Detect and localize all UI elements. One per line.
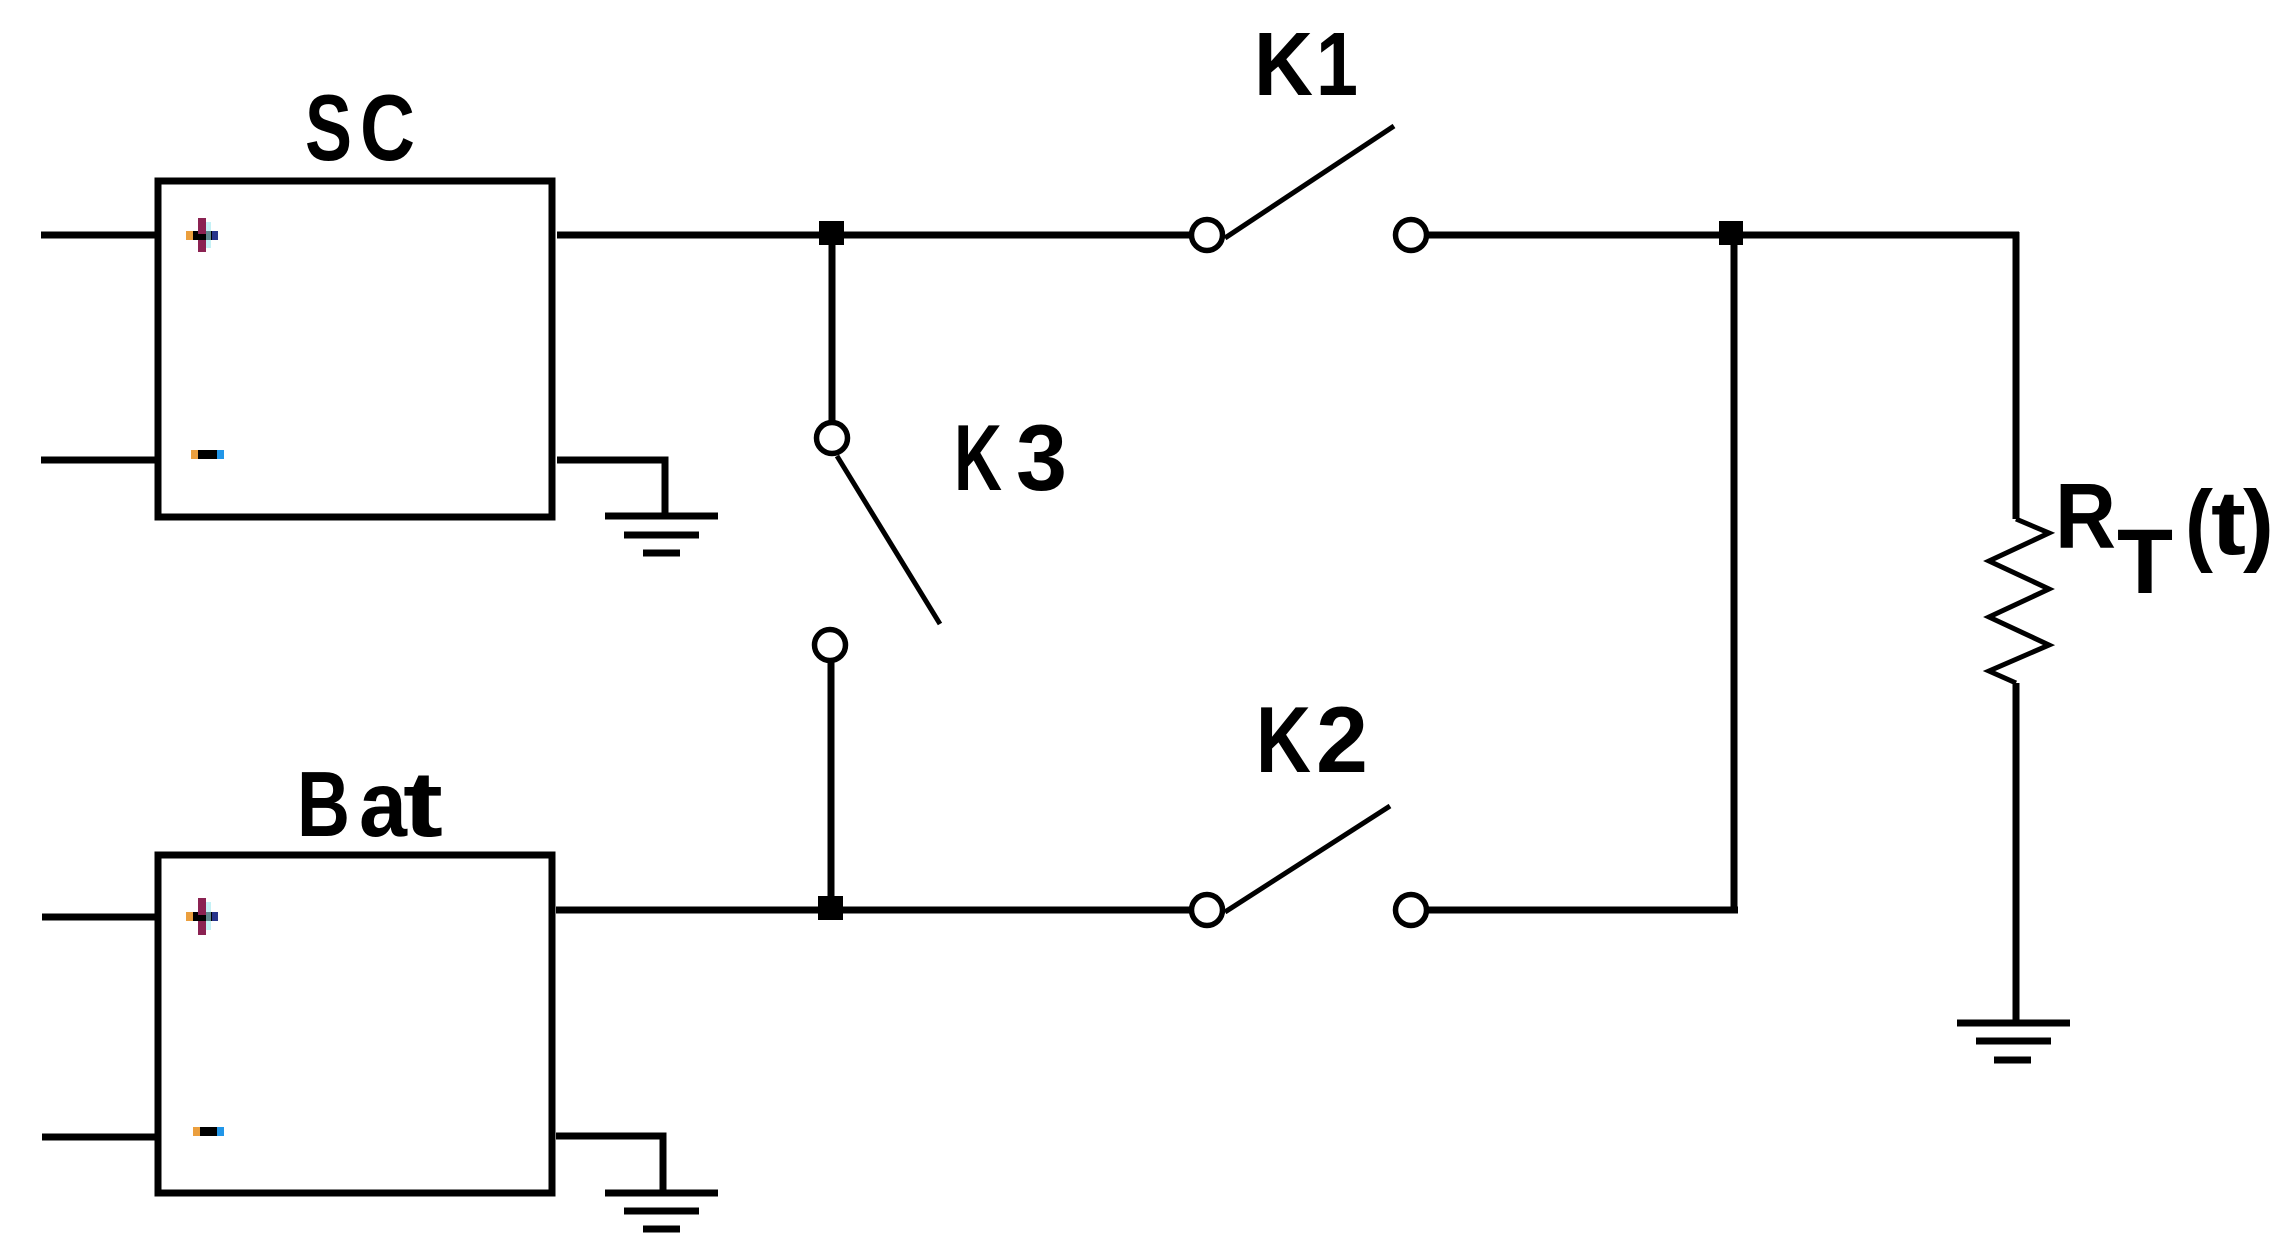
wire K2 to right riser [1427,907,1738,914]
ground under resistor [1957,1023,2070,1060]
label K3 [954,405,1067,510]
svg-text:t: t [2211,473,2246,574]
svg-text:S: S [305,75,352,180]
plus terminal label of Bat [186,898,218,935]
battery block Bat [158,855,552,1193]
minus terminal label of Bat [193,1127,224,1136]
wire Bat plus left stub [42,914,155,921]
wire SC minus left stub [41,457,157,464]
wire Bat minus left stub [42,1134,155,1141]
svg-text:B: B [297,752,350,856]
label SC [305,75,415,180]
label K1 [1254,15,1358,115]
supercapacitor block SC [158,181,552,517]
svg-text:C: C [360,75,415,180]
wire Bat plus output to K2 [556,907,1191,914]
wire K3 lower to Bat rail [828,662,835,910]
ground under Bat [605,1193,718,1229]
label R T (t) [2055,464,2274,613]
svg-text:K: K [1256,687,1311,792]
svg-text:3: 3 [1016,405,1067,510]
node junction dot on Bat rail [818,896,843,920]
svg-text:2: 2 [1316,687,1368,792]
node junction dot top-right [1719,221,1743,245]
wire SC plus output to K1 [557,232,1192,239]
wire K1 to top-right corner [1427,232,2019,239]
ground under SC [605,516,718,553]
svg-text:T: T [2117,511,2173,613]
wire SC plus left stub [41,232,157,239]
wire down right side to resistor [2013,232,2020,519]
plus terminal label of SC [186,218,218,252]
resistor RT(t) [1989,519,2049,683]
node junction dot top-left [819,221,844,245]
svg-text:(: ( [2185,473,2214,574]
svg-text:a: a [359,752,408,856]
switch K1 [1192,126,1427,251]
svg-text:K: K [954,405,1002,510]
svg-text:t: t [403,752,443,856]
wire SC minus stub to ground [557,460,665,516]
minus terminal label of SC [191,450,224,459]
wire resistor to ground [2013,683,2020,1020]
svg-text:K: K [1254,15,1313,115]
wire Bat minus stub to ground [556,1136,663,1193]
svg-text:1: 1 [1316,15,1358,115]
wire K3 branch from top rail [829,235,836,422]
label Bat [297,752,443,856]
svg-text:): ) [2243,473,2274,574]
switch K2 [1192,806,1427,926]
svg-text:R: R [2055,464,2116,568]
switch K3 [815,423,941,661]
wire riser up to top rail [1731,233,1738,913]
label K2 [1256,687,1368,792]
